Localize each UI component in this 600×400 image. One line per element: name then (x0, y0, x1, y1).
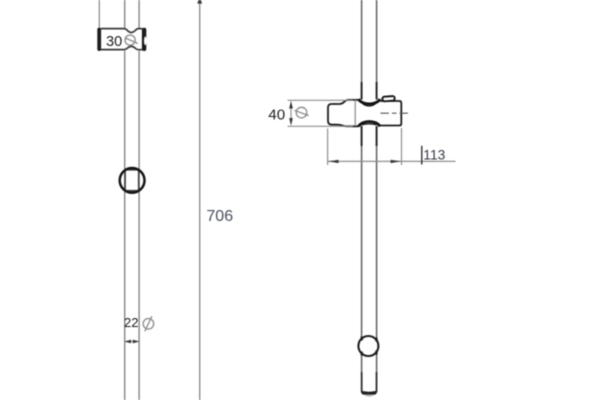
svg-text:113: 113 (423, 148, 445, 163)
knob (358, 336, 378, 356)
holder bracket outline (right view) (328, 100, 401, 126)
svg-text:40: 40 (268, 106, 285, 123)
knob rod intersection marks (362, 337, 377, 356)
svg-text:30: 30 (106, 34, 122, 50)
dimension 40 arrows (289, 101, 293, 126)
dimension line 113 (328, 160, 456, 163)
diameter symbol (22) (143, 316, 154, 331)
holder bottom saddle (359, 122, 380, 127)
rod dark segments near holder (362, 82, 377, 146)
right view rod (362, 0, 377, 390)
clamp lever (382, 96, 395, 101)
dimension 40 extension lines (288, 100, 354, 126)
width arrow 22 (125, 340, 140, 344)
holder top saddle (358, 99, 380, 106)
svg-text:706: 706 (206, 208, 233, 225)
left view rod (125, 0, 139, 400)
rod end cap (361, 372, 377, 397)
glider ring opening (rod through ring) (125, 170, 139, 191)
centerline (381, 112, 410, 114)
holder divider line (354, 100, 356, 126)
wall bracket body (left view) (97, 28, 146, 51)
dimension 113 tick (421, 146, 423, 165)
dimension line 706 (197, 0, 202, 400)
dimension 113 extension lines (328, 128, 402, 165)
glider ring (120, 168, 145, 193)
diameter symbol (30) (125, 35, 138, 45)
diameter symbol (40) (294, 107, 308, 118)
svg-text:22: 22 (124, 315, 138, 330)
extension line above wall bracket (98, 0, 100, 28)
